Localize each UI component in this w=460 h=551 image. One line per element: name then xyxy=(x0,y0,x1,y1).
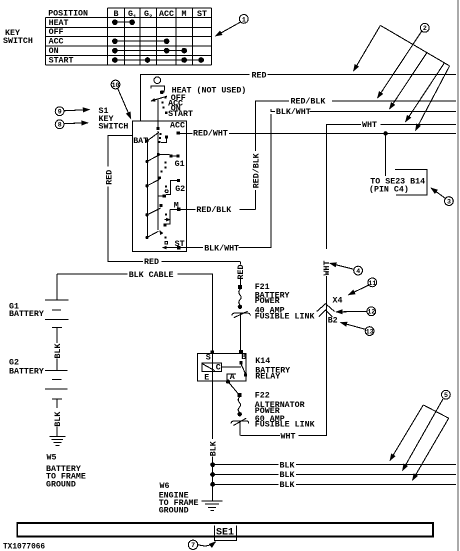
selector column xyxy=(157,99,159,129)
BAT label xyxy=(133,137,148,146)
svg-text:WHT: WHT xyxy=(362,121,377,130)
wire BLK CABLE (battery to relay S) xyxy=(57,271,213,352)
SE1 connector box xyxy=(214,526,236,541)
svg-text:RED/BLK: RED/BLK xyxy=(251,153,261,188)
svg-text:ACC: ACC xyxy=(170,122,185,131)
svg-text:C: C xyxy=(216,364,221,373)
svg-text:E: E xyxy=(204,373,209,382)
deck wiper arms xyxy=(147,132,161,237)
svg-text:3: 3 xyxy=(447,199,451,206)
K14 coil output line xyxy=(222,366,242,368)
M deck contact cluster xyxy=(160,204,181,227)
KEY SWITCH name label xyxy=(99,115,129,132)
F21 terminal square xyxy=(238,285,242,289)
K14 coil terminal C xyxy=(216,364,221,373)
svg-text:5: 5 xyxy=(444,392,448,399)
svg-text:2: 2 xyxy=(149,13,153,20)
RED label (horizontal run to F21) xyxy=(144,258,159,267)
KEY SWITCH table caption xyxy=(3,29,33,46)
BLK label (G1-G2 link) xyxy=(54,344,63,359)
svg-text:BLK/WHT: BLK/WHT xyxy=(276,107,311,117)
F21 labels xyxy=(255,283,315,321)
relay E wire to ground (BLK) xyxy=(212,381,214,501)
ST deck contact cluster xyxy=(160,231,168,245)
W6 labels xyxy=(159,482,199,515)
svg-text:RED: RED xyxy=(144,258,159,267)
F21 junction dot xyxy=(238,305,242,309)
battery G2 xyxy=(45,359,68,409)
svg-text:13: 13 xyxy=(366,329,374,336)
svg-text:WHT: WHT xyxy=(323,261,332,276)
svg-text:K14: K14 xyxy=(255,357,270,366)
fusible link F21 element xyxy=(232,311,251,318)
svg-text:SWITCH: SWITCH xyxy=(99,123,129,132)
svg-text:SWITCH: SWITCH xyxy=(3,37,33,46)
svg-text:X4: X4 xyxy=(333,297,343,306)
svg-text:8: 8 xyxy=(58,122,62,129)
svg-text:BATTERY: BATTERY xyxy=(9,368,44,377)
svg-text:A: A xyxy=(230,373,235,382)
K14 labels xyxy=(255,357,290,382)
svg-text:RED/BLK: RED/BLK xyxy=(196,205,231,215)
svg-text:TX1077066: TX1077066 xyxy=(3,544,45,551)
svg-text:G1: G1 xyxy=(175,160,185,169)
svg-text:ACC: ACC xyxy=(159,10,174,19)
key switch S1 outer box (top) xyxy=(139,74,141,121)
svg-text:B2: B2 xyxy=(328,316,338,325)
K14 terminal S xyxy=(210,350,214,354)
svg-text:BLK: BLK xyxy=(280,481,295,490)
F22 terminal square xyxy=(237,393,241,397)
callout 3 xyxy=(431,188,453,206)
S1 designator label xyxy=(99,107,109,116)
svg-text:G2: G2 xyxy=(175,185,185,194)
svg-text:12: 12 xyxy=(367,309,375,316)
svg-text:FUSIBLE LINK: FUSIBLE LINK xyxy=(255,421,315,430)
svg-text:POWER: POWER xyxy=(255,297,280,306)
svg-text:START: START xyxy=(168,110,193,119)
svg-text:BATTERY: BATTERY xyxy=(9,310,44,319)
svg-text:GROUND: GROUND xyxy=(159,506,189,515)
position labels xyxy=(168,86,246,119)
connector X4 chevrons xyxy=(317,304,335,317)
svg-text:2: 2 xyxy=(423,25,427,32)
svg-text:RED: RED xyxy=(106,170,115,185)
svg-text:9: 9 xyxy=(58,109,62,116)
key switch knob xyxy=(154,77,161,84)
wire BLK/WHT from ST xyxy=(163,107,457,253)
callout 7 xyxy=(188,540,215,549)
fan spine xyxy=(380,25,449,66)
svg-text:FUSIBLE LINK: FUSIBLE LINK xyxy=(255,312,315,321)
callout 11 xyxy=(349,278,377,295)
selector arm xyxy=(151,96,167,101)
knob bracket xyxy=(151,86,165,91)
svg-text:10: 10 xyxy=(112,82,120,89)
RED label (vertical at F21) xyxy=(237,265,246,280)
svg-text:SE1: SE1 xyxy=(216,528,234,539)
F22 labels xyxy=(255,392,315,430)
G2 deck contact cluster xyxy=(158,179,180,198)
K14 terminal A node xyxy=(226,379,230,383)
drawing number xyxy=(3,544,45,551)
svg-text:4: 4 xyxy=(356,268,360,275)
K14 terminal E xyxy=(204,373,209,382)
table ON row contacts xyxy=(113,48,187,53)
F21 lead squiggle xyxy=(239,289,241,304)
TO SE23 B14 box xyxy=(369,170,427,195)
svg-text:RED: RED xyxy=(237,265,246,280)
svg-text:BLK: BLK xyxy=(280,461,295,470)
SE1 harness bar xyxy=(17,523,433,537)
node: RED/WHT junction to SE23 xyxy=(383,131,387,135)
callout 2 with arrow fan xyxy=(354,23,450,130)
key switch BAT bus xyxy=(146,139,148,238)
M terminal label xyxy=(174,202,179,211)
fusible link F22 element xyxy=(231,418,248,425)
svg-text:ON: ON xyxy=(49,47,59,56)
svg-text:RED: RED xyxy=(252,71,267,80)
svg-text:ST: ST xyxy=(197,10,207,19)
fusible link F21 input wire xyxy=(239,261,241,285)
svg-text:RED/BLK: RED/BLK xyxy=(291,97,326,107)
battery G1 xyxy=(45,274,69,343)
F21 output wire to relay B xyxy=(239,313,241,353)
pin label B2 xyxy=(328,316,338,325)
G1 labels xyxy=(9,303,44,320)
K14 coil xyxy=(202,363,222,371)
svg-text:11: 11 xyxy=(368,280,376,287)
ST terminal label xyxy=(175,240,185,249)
callout 8 xyxy=(55,120,88,129)
F22 lead squiggle xyxy=(238,397,240,412)
wire BLK (bottom) xyxy=(213,481,456,490)
ground W5 symbol xyxy=(50,437,66,446)
F22 junction dot xyxy=(238,412,242,416)
svg-text:WHT: WHT xyxy=(281,432,296,441)
svg-text:POSITION: POSITION xyxy=(48,10,88,19)
key switch S1 contact box xyxy=(133,121,187,251)
BLK label (G2 to ground) xyxy=(54,412,63,427)
svg-text:ACC: ACC xyxy=(49,38,64,47)
svg-text:B: B xyxy=(241,353,246,362)
svg-text:1: 1 xyxy=(133,13,137,20)
RED label (vertical, BAT feed) xyxy=(106,170,115,185)
wire RED (key switch top to right edge) xyxy=(140,71,456,80)
arrow to WHT xyxy=(406,63,445,122)
svg-text:RED/WHT: RED/WHT xyxy=(193,129,228,139)
svg-text:W5: W5 xyxy=(47,453,57,462)
arrow to RED/WHT xyxy=(416,66,450,131)
svg-text:F22: F22 xyxy=(255,392,270,401)
svg-text:BLK: BLK xyxy=(54,412,63,427)
callout 13 xyxy=(341,323,375,336)
wire RED/BLK from M xyxy=(170,97,456,216)
svg-text:B: B xyxy=(114,10,119,19)
svg-text:M: M xyxy=(182,10,187,19)
arrow to BLK/WHT xyxy=(390,53,427,109)
F22 input lead from A xyxy=(229,383,238,394)
K14 contact arm xyxy=(241,364,245,374)
svg-text:OFF: OFF xyxy=(49,28,64,37)
wire BLK (top) xyxy=(213,461,456,470)
K14 terminal A bracket xyxy=(227,374,236,380)
svg-text:START: START xyxy=(49,57,74,66)
BLK label (vertical, E to ground) xyxy=(209,441,218,456)
W5 labels xyxy=(46,453,86,489)
wire BLK (middle) xyxy=(213,471,456,480)
svg-text:W6: W6 xyxy=(160,482,170,491)
svg-text:S: S xyxy=(206,353,211,362)
arrow to RED xyxy=(354,25,381,71)
svg-text:HEAT: HEAT xyxy=(49,19,69,28)
svg-text:BLK: BLK xyxy=(209,441,218,456)
callout 1 xyxy=(216,15,249,37)
svg-text:1: 1 xyxy=(242,16,246,23)
table ACC row contacts xyxy=(113,39,169,44)
svg-text:RELAY: RELAY xyxy=(255,373,280,382)
bus junction dots xyxy=(145,139,148,239)
G1 terminal label xyxy=(175,160,185,169)
BAT terminal wire (RED) xyxy=(108,135,240,261)
svg-text:BLK CABLE: BLK CABLE xyxy=(129,271,174,280)
relay K14 box xyxy=(198,353,247,380)
ACC deck contact cluster xyxy=(156,127,180,143)
svg-text:7: 7 xyxy=(191,542,195,549)
ground bus junction dots xyxy=(210,462,215,486)
ACC terminal label xyxy=(170,122,185,131)
wire RED/WHT from ACC xyxy=(180,129,456,139)
connector X4 label xyxy=(333,297,343,306)
G2 labels xyxy=(9,358,44,376)
page border (right) xyxy=(457,0,459,551)
K14 coil wire S-E xyxy=(212,353,214,380)
table row labels xyxy=(49,19,74,66)
table HEAT row contacts xyxy=(113,20,135,25)
callout 9 xyxy=(55,107,89,116)
svg-text:BLK/WHT: BLK/WHT xyxy=(204,243,239,253)
wire WHT (right, to F22 bottom) xyxy=(240,121,456,441)
svg-text:BLK: BLK xyxy=(280,471,295,480)
arrow to RED/BLK (leader from circle) xyxy=(378,31,422,98)
callout 4 xyxy=(330,263,363,275)
K14 contact B square xyxy=(239,361,242,364)
F22 output wire down to WHT xyxy=(239,421,241,435)
ground W6 symbol xyxy=(202,501,223,511)
table START row contacts xyxy=(113,58,204,63)
callout 5 with arrow fan xyxy=(390,390,450,480)
position detent dots xyxy=(162,91,168,115)
svg-text:(PIN C4): (PIN C4) xyxy=(369,185,409,195)
K14 terminal B xyxy=(239,350,243,354)
svg-text:GROUND: GROUND xyxy=(46,481,76,490)
key switch position table grid xyxy=(45,8,211,65)
callout 10 xyxy=(111,80,131,119)
G1 deck contact cluster xyxy=(157,153,180,179)
table header labels xyxy=(48,10,207,21)
G2 terminal label xyxy=(175,185,185,194)
svg-text:BLK: BLK xyxy=(54,344,63,359)
callout 12 xyxy=(336,307,376,316)
svg-text:G2: G2 xyxy=(9,358,19,367)
knob pivot dot xyxy=(160,91,163,94)
